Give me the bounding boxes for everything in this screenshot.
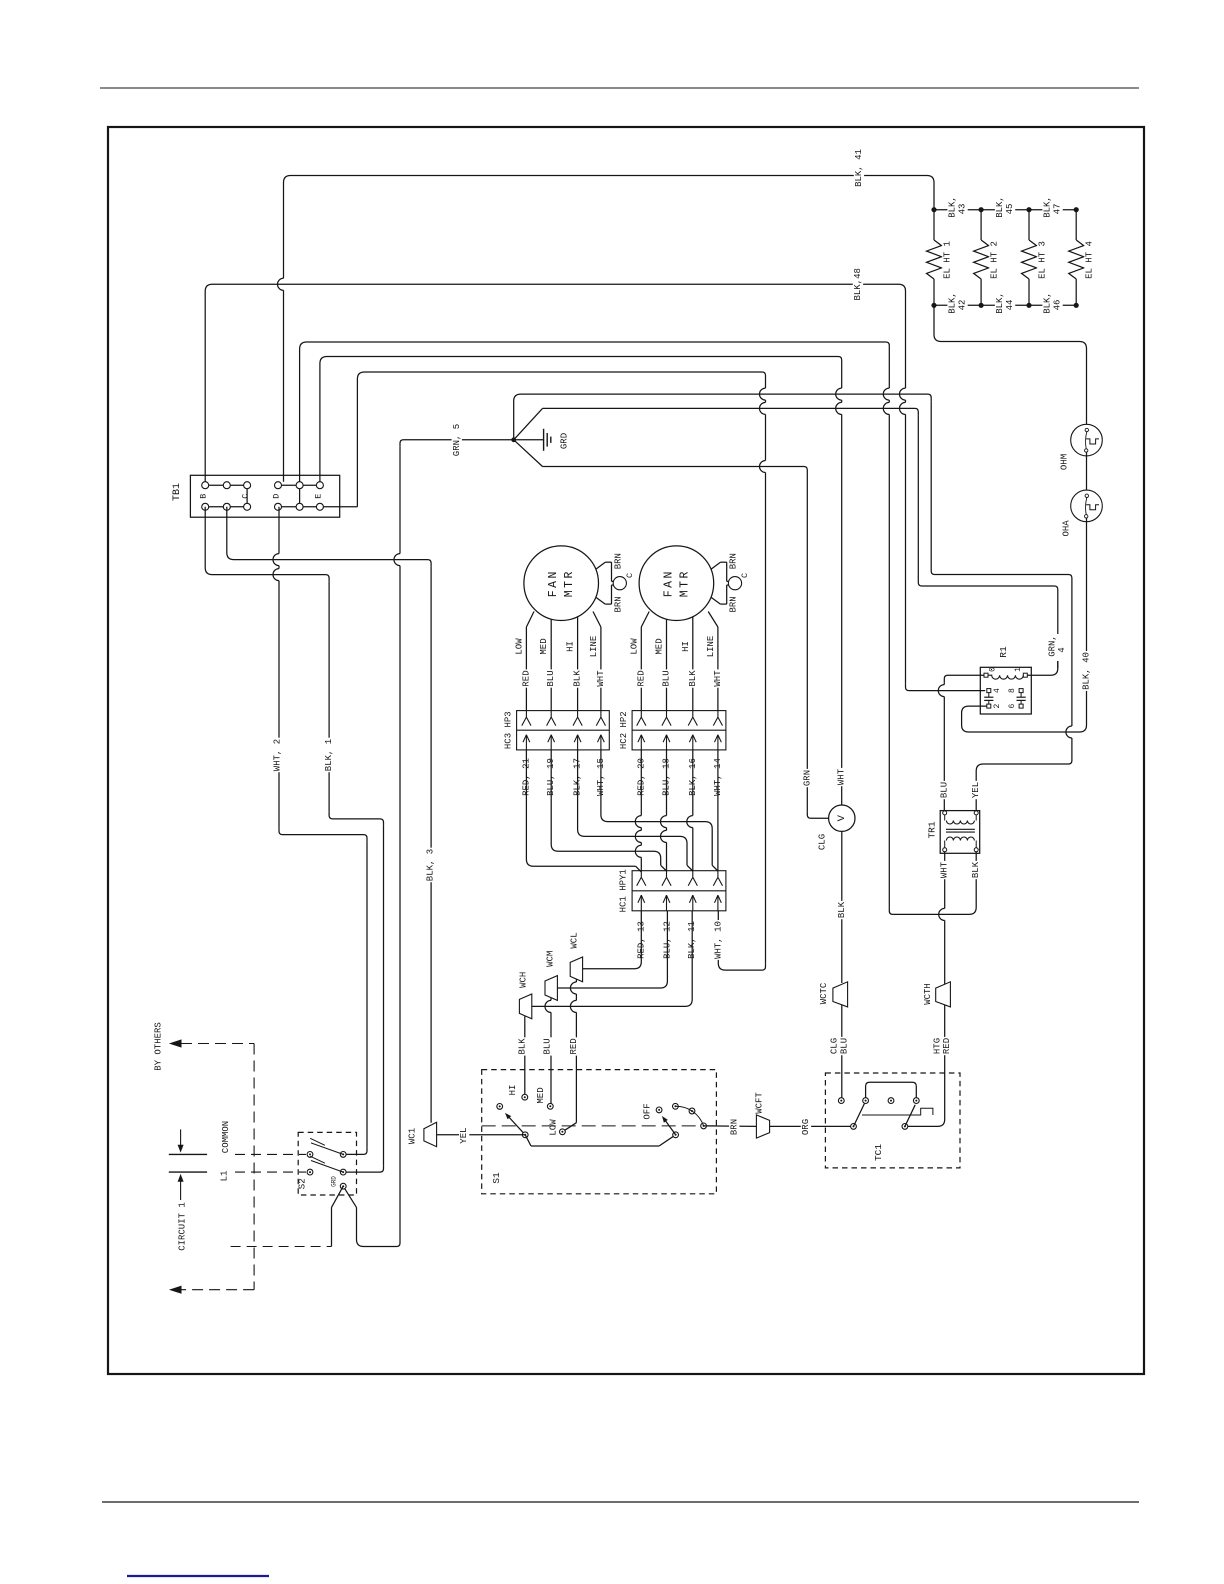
svg-text:BLK, 3: BLK, 3	[426, 849, 436, 881]
svg-text:YEL: YEL	[971, 782, 981, 798]
svg-text:BY OTHERS: BY OTHERS	[154, 1022, 164, 1071]
svg-text:FAN: FAN	[662, 569, 675, 597]
svg-text:E: E	[313, 494, 323, 499]
svg-text:BLK,48: BLK,48	[853, 268, 863, 300]
svg-text:TR1: TR1	[927, 821, 938, 838]
svg-text:V: V	[836, 814, 848, 821]
svg-text:HI: HI	[508, 1085, 518, 1096]
svg-text:BLK,: BLK,	[1043, 196, 1053, 218]
svg-text:B: B	[199, 494, 209, 499]
svg-text:OHM: OHM	[1060, 454, 1070, 470]
svg-text:MTR: MTR	[678, 569, 691, 597]
svg-text:YEL: YEL	[459, 1127, 469, 1143]
svg-text:WCTH: WCTH	[923, 983, 933, 1005]
svg-text:CLG: CLG	[829, 1038, 839, 1054]
svg-text:44: 44	[1005, 300, 1015, 311]
svg-text:WHT: WHT	[837, 768, 847, 785]
svg-text:L1: L1	[220, 1171, 230, 1182]
svg-text:1: 1	[1014, 667, 1023, 672]
svg-text:42: 42	[958, 300, 968, 311]
svg-text:46: 46	[1053, 300, 1063, 311]
svg-text:OFF: OFF	[643, 1103, 653, 1119]
svg-text:BLU: BLU	[662, 670, 672, 686]
svg-text:BLK, 41: BLK, 41	[854, 149, 864, 187]
svg-text:0: 0	[988, 667, 997, 672]
svg-text:LOW: LOW	[514, 638, 524, 655]
svg-text:WCTC: WCTC	[819, 982, 829, 1004]
svg-text:CLG: CLG	[818, 834, 828, 850]
svg-text:WCFT: WCFT	[755, 1092, 765, 1114]
svg-text:LINE: LINE	[706, 636, 716, 658]
svg-text:ORG: ORG	[801, 1119, 811, 1135]
svg-text:BLU: BLU	[546, 670, 556, 686]
svg-text:45: 45	[1005, 204, 1015, 215]
svg-text:RED: RED	[569, 1038, 579, 1054]
svg-text:GRN,: GRN,	[1048, 635, 1058, 657]
svg-text:C: C	[241, 494, 251, 499]
svg-text:LOW: LOW	[549, 1119, 559, 1136]
svg-text:TC1: TC1	[873, 1144, 884, 1161]
svg-text:LINE: LINE	[589, 636, 599, 658]
svg-text:BLK,: BLK,	[995, 292, 1005, 314]
svg-text:WHT: WHT	[940, 861, 950, 878]
svg-text:WCM: WCM	[545, 951, 555, 967]
svg-text:HC1 HPY1: HC1 HPY1	[619, 869, 629, 912]
svg-text:CIRCUIT 1: CIRCUIT 1	[178, 1202, 188, 1251]
svg-text:R1: R1	[998, 646, 1009, 658]
svg-text:BLK,: BLK,	[948, 292, 958, 314]
svg-text:4: 4	[993, 688, 1002, 693]
svg-text:HTG: HTG	[932, 1038, 942, 1054]
svg-text:HI: HI	[566, 641, 576, 652]
svg-text:BLK: BLK	[688, 670, 698, 687]
svg-text:RED: RED	[942, 1038, 952, 1054]
svg-text:BRN: BRN	[729, 553, 739, 569]
svg-text:OHA: OHA	[1061, 520, 1071, 537]
svg-text:HC2 HP2: HC2 HP2	[619, 711, 629, 749]
svg-text:BLK: BLK	[837, 901, 847, 918]
svg-text:WC1: WC1	[408, 1128, 418, 1144]
svg-text:BLU: BLU	[543, 1038, 553, 1054]
svg-text:BRN: BRN	[729, 1119, 739, 1135]
svg-text:BLK,: BLK,	[1043, 292, 1053, 314]
svg-text:S2: S2	[298, 1178, 308, 1189]
svg-text:WHT: WHT	[596, 670, 606, 687]
svg-text:BLK: BLK	[517, 1038, 527, 1055]
svg-text:WCH: WCH	[519, 972, 529, 988]
svg-text:EL HT 3: EL HT 3	[1038, 241, 1048, 279]
svg-text:6: 6	[1008, 704, 1017, 709]
svg-text:LOW: LOW	[629, 638, 639, 655]
svg-text:MED: MED	[536, 1087, 546, 1103]
svg-text:BLU: BLU	[840, 1038, 850, 1054]
svg-text:RED: RED	[521, 670, 531, 686]
svg-text:47: 47	[1053, 204, 1063, 215]
svg-text:EL HT 1: EL HT 1	[943, 241, 953, 279]
svg-text:2: 2	[993, 704, 1002, 709]
svg-text:WHT: WHT	[713, 670, 723, 687]
svg-text:COMMON: COMMON	[221, 1121, 231, 1153]
svg-text:BLU: BLU	[939, 782, 949, 798]
svg-text:C: C	[625, 573, 635, 578]
svg-text:WHT, 10: WHT, 10	[713, 921, 723, 959]
svg-text:BLK, 1: BLK, 1	[324, 739, 334, 771]
svg-text:EL HT 4: EL HT 4	[1085, 241, 1095, 279]
svg-text:GRN: GRN	[802, 770, 812, 786]
svg-text:FAN: FAN	[547, 569, 560, 597]
svg-text:HC3 HP3: HC3 HP3	[504, 711, 514, 749]
svg-text:HI: HI	[681, 641, 691, 652]
svg-text:GRD: GRD	[560, 433, 570, 449]
svg-text:EL HT 2: EL HT 2	[990, 241, 1000, 279]
svg-text:MTR: MTR	[563, 569, 576, 597]
svg-text:BRN: BRN	[729, 596, 739, 612]
svg-text:GRD: GRD	[331, 1176, 338, 1187]
svg-text:C: C	[740, 573, 750, 578]
svg-text:4: 4	[1057, 647, 1067, 652]
svg-text:TB1: TB1	[172, 483, 183, 501]
svg-text:43: 43	[958, 204, 968, 215]
svg-text:MED: MED	[655, 638, 665, 654]
svg-text:S1: S1	[491, 1172, 502, 1184]
svg-text:D: D	[272, 494, 282, 499]
svg-text:BRN: BRN	[614, 553, 624, 569]
svg-text:BLK, 40: BLK, 40	[1082, 652, 1092, 690]
svg-text:BRN: BRN	[614, 596, 624, 612]
svg-text:BLK,: BLK,	[948, 196, 958, 218]
svg-text:MED: MED	[539, 638, 549, 654]
svg-text:8: 8	[1008, 688, 1017, 693]
svg-text:WHT, 2: WHT, 2	[273, 739, 283, 771]
svg-text:BLK: BLK	[971, 861, 981, 878]
svg-text:RED: RED	[636, 670, 646, 686]
svg-text:WCL: WCL	[570, 932, 580, 948]
svg-text:BLK: BLK	[573, 670, 583, 687]
svg-text:BLK,: BLK,	[995, 196, 1005, 218]
svg-text:GRN, 5: GRN, 5	[452, 424, 462, 456]
